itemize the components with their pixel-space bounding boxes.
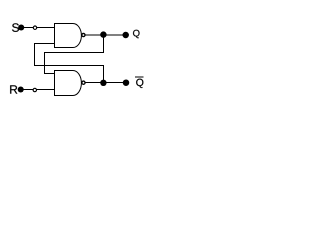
nand gate U1 bbox=[55, 24, 82, 48]
terminal Q bbox=[122, 32, 129, 39]
nand gate U2 bbox=[55, 70, 82, 95]
terminal S bbox=[18, 24, 24, 30]
wire U1 output to Q bbox=[85, 34, 123, 36]
inversion bubble U1 bbox=[82, 33, 85, 36]
wire feedback from U1 output down-left into U2 pin 1 bbox=[45, 35, 104, 74]
connector bubble S bbox=[33, 26, 36, 29]
background bbox=[0, 0, 148, 111]
terminal R bbox=[18, 86, 24, 92]
wire S input bbox=[21, 27, 54, 29]
connector bubble R bbox=[33, 88, 36, 91]
terminal Qbar bbox=[123, 79, 130, 86]
label S bbox=[12, 23, 19, 31]
overline of Qbar bbox=[135, 76, 143, 78]
label R bbox=[10, 85, 17, 93]
junction node Qbar feedback bbox=[100, 80, 106, 86]
inversion bubble U2 bbox=[82, 81, 85, 84]
label Qbar bbox=[136, 79, 143, 88]
junction node Q feedback bbox=[100, 31, 106, 37]
label Q bbox=[133, 30, 139, 38]
wire U2 output to Qbar bbox=[85, 82, 123, 84]
wire feedback from U2 output up-left into U1 pin 2 bbox=[35, 44, 104, 83]
wire R input bbox=[21, 89, 54, 91]
